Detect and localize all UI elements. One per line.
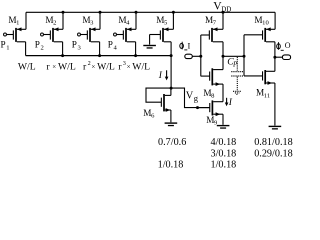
label M6 [143, 108, 155, 120]
label M7 [205, 15, 217, 27]
value label r3×W/L [118, 60, 150, 72]
svg-text:1: 1 [16, 20, 19, 27]
svg-text:P: P [108, 40, 113, 50]
current arrow I (mirror) [158, 70, 169, 81]
junction on Vg wire [196, 106, 199, 109]
label M8 [203, 88, 215, 100]
label M4 [118, 15, 130, 27]
value label r2×W/L [83, 60, 115, 72]
svg-text:×: × [127, 63, 131, 71]
svg-text:×: × [52, 63, 56, 71]
wire output node to port [275, 56, 283, 58]
label P1 [1, 40, 10, 52]
ground at M11 source [269, 126, 282, 130]
value label 1/0.18 left [158, 160, 184, 171]
svg-text:P: P [72, 40, 77, 50]
label M3 [82, 15, 94, 27]
junction node above M6 [170, 87, 173, 90]
svg-text:11: 11 [264, 92, 270, 99]
port phi_O [282, 55, 290, 60]
transistor M3 (PMOS) [87, 12, 100, 55]
transistor M10 (PMOS) [244, 12, 275, 57]
port P1 [4, 33, 14, 36]
svg-text:0.29/0.18: 0.29/0.18 [254, 148, 293, 159]
svg-text:P: P [35, 40, 40, 50]
svg-text:g: g [194, 93, 199, 103]
svg-text:2: 2 [53, 20, 56, 27]
power VDD label [213, 0, 231, 13]
junction on drain bus (M4) [134, 54, 137, 57]
svg-text:2: 2 [88, 60, 91, 67]
port P4 [114, 33, 124, 36]
wire drain bus to node Vg top [170, 56, 172, 89]
label Cp [227, 57, 238, 69]
svg-text:3: 3 [123, 60, 126, 67]
junction on VDD rail (M7 source) [222, 11, 225, 14]
current arrow I (starved branch) [225, 98, 233, 108]
junction phi_I gate bus [199, 55, 202, 58]
svg-text:P: P [232, 61, 238, 69]
wire node to Vg / M9 gate [171, 88, 210, 108]
ground at M9 source [217, 125, 230, 129]
junction M7/M8 drains [222, 55, 225, 58]
junction on drain bus (M3) [98, 54, 101, 57]
junction on VDD rail (M2 source) [62, 11, 65, 14]
svg-text:3/0.18: 3/0.18 [211, 148, 237, 159]
wire M8 drain to output node [222, 56, 224, 69]
svg-text:4/0.18: 4/0.18 [211, 137, 237, 148]
ground at M6 source [165, 122, 178, 126]
value label 0.7/0.6 [158, 137, 186, 148]
wire VDD rail [26, 11, 275, 13]
label M11 [256, 88, 270, 100]
svg-text:O: O [285, 41, 291, 50]
transistor M2 (PMOS) [50, 12, 63, 55]
wire gate bus M10/M11 [243, 35, 245, 76]
transistor M9 (NMOS) [198, 100, 224, 124]
ground at Cp (dotted) [233, 91, 242, 94]
port phi_I [185, 54, 193, 58]
junction on drain bus (M2) [61, 54, 64, 57]
label M1 [8, 15, 19, 27]
label phi_O [277, 41, 291, 50]
junction on VDD rail (M4 source) [135, 11, 138, 14]
label M5 [156, 15, 168, 27]
svg-text:10: 10 [262, 20, 269, 27]
svg-text:V: V [186, 91, 194, 102]
node Vg label [186, 91, 199, 104]
junction on VDD rail (M5 source) [172, 11, 175, 14]
transistor M7 (PMOS) [201, 12, 223, 56]
svg-text:1/0.18: 1/0.18 [158, 160, 184, 171]
port P3 [78, 33, 88, 36]
svg-text:P: P [1, 40, 6, 50]
svg-text:W/L: W/L [58, 62, 76, 73]
wire phi_I to gate bus [192, 55, 201, 57]
label M9 [206, 115, 218, 127]
junction output node [273, 56, 276, 59]
svg-text:W/L: W/L [18, 62, 36, 73]
label M2 [45, 15, 56, 27]
ground at M5 gate [143, 45, 156, 49]
transistor M6 (NMOS diode-connected) [146, 88, 171, 122]
transistor M4 (PMOS) [123, 12, 136, 55]
port P2 [41, 33, 51, 36]
wire inverter output to M10/M11 gate bus [223, 55, 244, 57]
transistor M11 (NMOS) [244, 57, 275, 125]
transistor M1 (PMOS) [13, 12, 26, 55]
svg-text:W/L: W/L [97, 62, 115, 73]
svg-text:W/L: W/L [132, 62, 150, 73]
value label 4/0.18 [211, 137, 237, 148]
junction on VDD rail (M3 source) [99, 11, 102, 14]
junction gate bus [243, 55, 246, 58]
svg-text:2: 2 [41, 45, 44, 52]
svg-text:1: 1 [6, 45, 9, 52]
capacitor Cp (dotted) [231, 57, 243, 90]
wire drain bus [26, 55, 172, 57]
value label 0.29/0.18 [254, 148, 293, 159]
label M10 [254, 15, 269, 27]
transistor M8 (NMOS) [201, 68, 223, 101]
value label 3/0.18 [211, 148, 237, 159]
svg-text:×: × [91, 63, 95, 71]
value label 1/0.18 mid [211, 160, 237, 171]
label phi_I [180, 40, 191, 50]
label P3 [72, 40, 82, 52]
svg-text:I: I [188, 40, 191, 50]
label P4 [108, 40, 118, 52]
svg-text:0.7/0.6: 0.7/0.6 [158, 137, 186, 148]
value label r×W/L [46, 62, 75, 73]
junction drain bus to M5 drain [170, 54, 173, 57]
label P2 [35, 40, 44, 52]
value label W/L [18, 62, 36, 73]
svg-text:1/0.18: 1/0.18 [211, 160, 237, 171]
transistor M5 (PMOS) [160, 12, 173, 55]
wire M5 gate to ground [150, 35, 161, 45]
wire gate bus M7/M8 [200, 35, 202, 76]
value label 0.81/0.18 [254, 137, 293, 148]
svg-text:0.81/0.18: 0.81/0.18 [254, 137, 293, 148]
